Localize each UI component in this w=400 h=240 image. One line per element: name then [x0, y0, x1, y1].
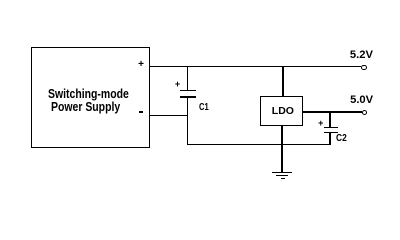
capacitor C2 top plate — [324, 127, 338, 129]
wire: negative lead from supply to C1 branch — [150, 115, 188, 116]
wire: ground rail — [187, 144, 331, 145]
ground symbol bar 3 — [281, 178, 285, 180]
label Switching-mode (line 1 of supply label) — [48, 87, 129, 100]
wire: C2 bottom lead — [329, 133, 330, 145]
power supply box U1 — [31, 47, 150, 147]
ground symbol bar 2 — [276, 175, 288, 177]
capacitor C2 bottom plate — [324, 132, 338, 134]
label + polarity C1 — [175, 80, 180, 89]
pin label + (supply positive) — [138, 60, 144, 70]
capacitor C1 top plate — [180, 90, 196, 92]
label 5.2V — [350, 50, 373, 61]
wire: C1 bottom lead down to ground rail — [187, 98, 188, 145]
wire: LDO output to 5.0V terminal — [303, 111, 362, 112]
wire: positive rail from supply to 5.2V terminal — [150, 66, 361, 67]
terminal 5.0V circle — [362, 110, 367, 115]
ground symbol bar 1 — [272, 172, 292, 174]
label C2 — [336, 134, 347, 144]
label Power Supply (line 2 of supply label) — [51, 100, 120, 113]
wire: LDO ground lead down to earth — [281, 126, 282, 172]
wire: C1 top lead — [187, 66, 188, 90]
terminal 5.2V circle — [361, 65, 366, 70]
label C1 — [199, 103, 209, 113]
label LDO — [272, 106, 294, 117]
capacitor C1 bottom plate — [180, 96, 196, 98]
wire: C2 top lead — [329, 111, 330, 127]
pin label - (supply negative) — [139, 111, 143, 113]
wire: LDO input lead from positive rail — [282, 66, 283, 96]
label + polarity C2 — [318, 119, 323, 128]
LDO box U2 — [260, 96, 303, 126]
label 5.0V — [350, 95, 373, 106]
